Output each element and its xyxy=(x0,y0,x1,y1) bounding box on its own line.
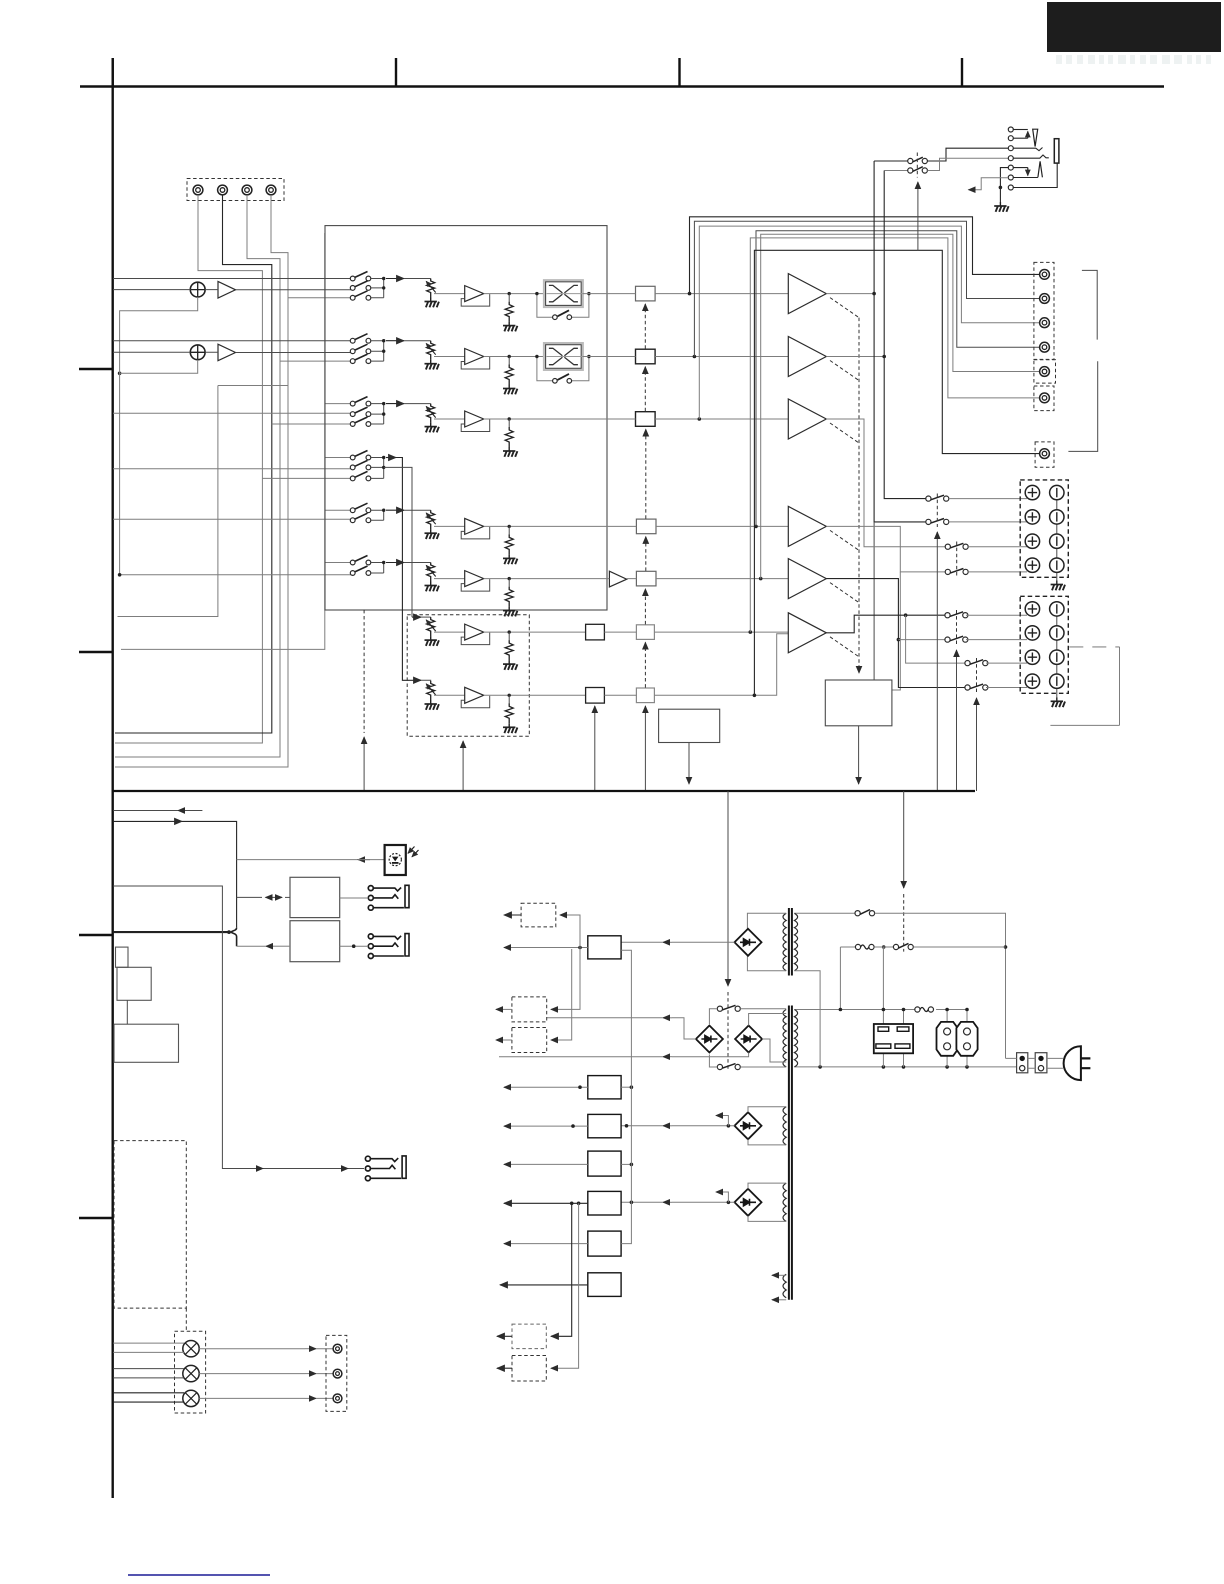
title watermark row xyxy=(1056,55,1211,64)
wire K5a-term xyxy=(986,662,1027,664)
gnd drop U2 xyxy=(120,360,198,575)
terminal A-4 xyxy=(1050,558,1064,572)
join wire row5 xyxy=(371,510,384,520)
aux AC line xyxy=(883,1009,967,1011)
aux op-amp QB xyxy=(461,687,490,708)
wire K4a-term xyxy=(966,614,1027,616)
load R-gnd R2 xyxy=(508,357,510,365)
node R6 xyxy=(508,577,511,580)
op-amp Q1 xyxy=(461,286,490,307)
BR5 loop top xyxy=(748,1183,786,1189)
bypass loop X1 xyxy=(537,294,589,318)
node E line xyxy=(630,1201,634,1205)
ruler tick x396 xyxy=(395,58,397,87)
buffer U19 xyxy=(586,688,605,704)
plug prongs xyxy=(1081,1058,1091,1068)
LED D3 xyxy=(183,1390,199,1406)
indicator jack 2 xyxy=(333,1369,342,1378)
load R-gnd R3 xyxy=(508,419,510,427)
jack trunk arrow 2 xyxy=(337,1168,348,1170)
connector CN1 dashed box xyxy=(187,179,284,201)
rec-out selector X1 xyxy=(544,280,583,307)
feed dbox4 xyxy=(551,1203,572,1336)
drop wire row4b to aux amp A xyxy=(384,467,412,617)
bypass loop X2 xyxy=(537,357,589,381)
wire R6-amp5 xyxy=(607,578,788,580)
switch S3a xyxy=(350,397,371,406)
LED feed wires 3 xyxy=(113,1393,184,1402)
wire R5-amp4 xyxy=(607,525,788,527)
main control bus xyxy=(113,790,975,792)
spk relay K3a xyxy=(945,543,968,549)
terminal B+3 xyxy=(1025,650,1039,664)
join wire row4 xyxy=(371,458,384,479)
node preout5 xyxy=(759,577,763,581)
gnd drop U1 xyxy=(120,297,198,373)
spk relay K2b xyxy=(926,519,949,525)
out to box edge R1 xyxy=(582,293,607,295)
wire R2-amp2 xyxy=(607,356,788,358)
switch S5a xyxy=(350,503,371,512)
feed dbox1 xyxy=(560,915,580,948)
BR5 out arrow xyxy=(663,1201,672,1203)
AC relay K7 xyxy=(893,944,898,949)
reg D right stub xyxy=(621,1163,631,1165)
preout wire 7 xyxy=(754,250,1039,695)
stub row5a xyxy=(325,509,353,511)
node R3 xyxy=(508,417,511,420)
dbox5 out xyxy=(497,1367,512,1369)
sys ctl box lower xyxy=(114,1024,179,1062)
hp/spk feed vertical R xyxy=(884,171,926,499)
protection out arrow xyxy=(858,726,860,784)
aux drop 2 xyxy=(903,1010,905,1025)
transformer T1 core xyxy=(789,908,792,976)
reg B right stub xyxy=(621,1086,631,1088)
node amp6 tap xyxy=(904,613,908,617)
IR sensor wire xyxy=(237,859,370,861)
hp arm c5 xyxy=(1000,168,1027,188)
out wire R1 xyxy=(484,293,545,295)
terminal A minus link xyxy=(1056,493,1058,581)
load R-gnd QA xyxy=(508,632,510,640)
hp c5-c6 link arrow xyxy=(1027,168,1029,176)
wire fuse-relay xyxy=(874,946,893,948)
outlet drops xyxy=(883,1053,903,1067)
terminal A+2 xyxy=(1025,510,1039,524)
X2 through wire xyxy=(547,356,582,358)
X1 through wire xyxy=(547,293,582,295)
wire J3 down xyxy=(115,195,280,757)
op-amp Q3 xyxy=(461,411,490,432)
LED dashed box xyxy=(175,1331,206,1413)
preout wire 6 xyxy=(750,238,1039,632)
switch S4b xyxy=(350,460,371,469)
arrow row5 xyxy=(386,509,404,511)
vol IC U11 xyxy=(636,286,656,301)
muting box xyxy=(659,709,720,742)
wire J1 down xyxy=(115,195,262,743)
LED out wire 1 xyxy=(199,1348,305,1350)
node preout3 xyxy=(698,417,702,421)
line-in row5 xyxy=(113,519,353,520)
BR5 loop bottom xyxy=(748,1216,786,1222)
BR3 out arrow xyxy=(663,1056,672,1058)
node R5 xyxy=(508,525,511,528)
switch S5b xyxy=(350,513,371,522)
hp c1-c2 link arrow xyxy=(1027,132,1029,139)
vol IC U12 xyxy=(636,349,656,364)
title block xyxy=(1047,2,1221,52)
node reg A xyxy=(578,946,582,950)
terminal A-3 xyxy=(1050,534,1064,548)
AC switch S-PWR xyxy=(794,912,855,914)
wire pot-opamp R5 xyxy=(434,525,465,527)
IR wire arrow xyxy=(358,859,370,861)
node preout1 xyxy=(688,292,692,296)
hp ground xyxy=(994,202,1008,212)
node dots bottom AC xyxy=(818,1065,822,1069)
feed dbox5 xyxy=(551,1203,579,1368)
indicator jack 3 xyxy=(333,1394,342,1403)
left ruler line xyxy=(111,58,113,1498)
arrow into aux A xyxy=(412,616,421,618)
volume pot VR2 xyxy=(425,341,439,370)
terminal B+2 xyxy=(1025,626,1039,640)
node primary xyxy=(839,1008,843,1012)
feed vertical L continuation xyxy=(873,522,875,680)
ctrl bus thick wire xyxy=(113,931,228,933)
wire pot-opamp B xyxy=(434,694,465,696)
wire K4b-term xyxy=(966,639,1027,641)
remote unit box 2 xyxy=(290,921,340,962)
left tick y652 xyxy=(79,651,113,653)
expansion dashed box xyxy=(114,1141,186,1309)
reg F out xyxy=(504,1243,588,1245)
switch S2b xyxy=(350,344,371,353)
spk relay K5a xyxy=(965,660,988,666)
T1 left loop top xyxy=(747,913,786,928)
aux pot B xyxy=(425,681,439,710)
node dots row4 xyxy=(382,456,385,459)
box2-jackB wire xyxy=(340,945,369,947)
terminal B-1 xyxy=(1050,602,1064,616)
hex outlet stems xyxy=(947,1010,967,1067)
bridge dash PA2 xyxy=(830,361,859,381)
switch S2a xyxy=(350,334,371,343)
BR4 out wire xyxy=(672,1125,735,1127)
ctl feed up U18 xyxy=(594,706,596,791)
terminal B+1 xyxy=(1025,602,1039,616)
remote jack C xyxy=(365,1156,406,1181)
spk relay K4a xyxy=(945,612,968,618)
AC plug xyxy=(1064,1046,1081,1080)
BR2 out arrow xyxy=(663,1017,672,1019)
input line 2b xyxy=(113,351,353,352)
terminal A+3 xyxy=(1025,534,1039,548)
LED feed wires 2 xyxy=(113,1369,184,1378)
input line 1a xyxy=(113,278,353,280)
hp arm c6 xyxy=(1013,177,1038,179)
feed dbox2 xyxy=(551,948,580,1010)
terminal B-4 xyxy=(1050,674,1064,688)
BR4 node xyxy=(727,1124,731,1128)
out wire R3 xyxy=(484,418,607,420)
box2 wire arrow xyxy=(277,945,290,947)
hp jack contact c2 xyxy=(1008,136,1013,141)
vol ctl dashed link 5 xyxy=(644,589,646,625)
IR beam arrow 2 xyxy=(412,850,419,857)
wire to pot R5 xyxy=(404,509,431,511)
spk relay K5b xyxy=(965,684,988,690)
amp6 out wire xyxy=(826,615,945,633)
power trunk down xyxy=(727,791,729,986)
regulator C xyxy=(588,1114,621,1137)
switch S1c xyxy=(350,291,371,300)
control arrow up into aux box xyxy=(462,741,464,791)
aux fuse F2 xyxy=(915,1007,934,1012)
node QA xyxy=(508,630,511,633)
vol ctl dashed link 4 xyxy=(645,537,647,571)
transformer T2/T3 core xyxy=(789,1006,792,1300)
node hex xyxy=(945,1008,949,1012)
LED feed wires 1 xyxy=(113,1343,184,1352)
ctl feed up U17 xyxy=(644,706,646,791)
wire rowB feed xyxy=(604,634,788,696)
preout wire 1 xyxy=(690,217,1040,294)
switch S3c xyxy=(350,417,371,426)
node dot row5 xyxy=(382,509,385,512)
amp5 tap wire xyxy=(898,639,945,641)
BR4 out tail xyxy=(621,1125,663,1127)
node C line xyxy=(625,1124,629,1128)
psu relay control drop xyxy=(903,791,905,888)
hp relay K1a xyxy=(908,158,913,163)
trunk brace xyxy=(231,928,237,947)
jack trunk arrow 1 xyxy=(252,1168,263,1170)
hp jack contact c5 xyxy=(1008,165,1013,170)
wire pot-opamp A xyxy=(434,631,465,633)
wire pot-opamp R1 xyxy=(434,293,465,295)
line-in row4 xyxy=(113,467,353,468)
stub row3c xyxy=(272,423,353,425)
amp1 out wire xyxy=(826,293,874,295)
outlet slots xyxy=(878,1027,889,1031)
relay K4 dashed xyxy=(956,610,958,645)
reg G out xyxy=(500,1284,588,1286)
hp wire to ring contact xyxy=(927,158,1008,170)
join wire row3 xyxy=(371,404,384,424)
join wire row6 xyxy=(371,563,384,574)
relay K2 control xyxy=(936,532,938,791)
remote jack trunk xyxy=(113,886,364,1169)
left tick y369 xyxy=(79,368,113,370)
LED out wire 2 xyxy=(199,1373,305,1375)
dashed module 3 xyxy=(512,1028,547,1053)
box1-jackA wire xyxy=(340,897,369,899)
line-in row6 xyxy=(120,573,353,575)
out to box edge R2 xyxy=(582,356,607,358)
page footer blue rule xyxy=(128,1574,270,1576)
buffer U18 xyxy=(586,624,605,640)
hp arm c1 xyxy=(1013,129,1028,131)
hex outlet 1 xyxy=(937,1022,958,1056)
terminal block 1 xyxy=(1017,1053,1028,1073)
trunk wire T2 xyxy=(121,233,325,649)
ruler tick x679 xyxy=(678,58,680,87)
vol ctl dashed link 6 xyxy=(644,642,646,687)
aux pot A xyxy=(425,617,439,646)
node jackB xyxy=(352,944,356,948)
dbox3 out xyxy=(496,1039,512,1041)
node reg E2 xyxy=(577,1202,581,1206)
wire K3a-term xyxy=(968,546,1027,548)
BR2 feed bottom xyxy=(709,1055,717,1068)
switch S3b xyxy=(350,407,371,416)
node dot row6 xyxy=(382,561,385,564)
arrow row3 xyxy=(386,403,404,405)
volume pot VR1 xyxy=(425,279,439,308)
summing node U2 xyxy=(190,345,205,360)
psu relay control dashed xyxy=(903,894,905,952)
power amp PA1 xyxy=(788,274,826,314)
out wire R2 xyxy=(484,356,545,358)
BR3 loop top xyxy=(749,1014,787,1026)
vol IC U17 xyxy=(636,688,654,703)
join wire row2 xyxy=(371,341,384,361)
node dots X2 xyxy=(535,355,538,358)
wire J2 down xyxy=(115,195,272,733)
BR3 loop bottom xyxy=(762,1039,786,1062)
regulator E xyxy=(588,1191,621,1215)
reg D out xyxy=(504,1163,588,1165)
wire to pot R3 xyxy=(404,403,431,405)
protect sense dashed vertical xyxy=(858,318,860,673)
spk relay K3b xyxy=(945,569,968,575)
line-in row3 xyxy=(113,412,353,415)
buffer amp A2 xyxy=(218,344,236,361)
wire J4 down xyxy=(115,195,288,767)
IR receiver box xyxy=(385,845,406,875)
hp feed left wire xyxy=(874,160,908,162)
BR5 node xyxy=(727,1201,731,1205)
ground terminal B xyxy=(1051,697,1065,707)
relay K3 dashed xyxy=(956,542,958,578)
input line 2a xyxy=(113,340,353,342)
reg right rail xyxy=(621,950,631,1243)
remote out wire xyxy=(113,820,170,822)
node aux2 xyxy=(902,1008,906,1012)
terminal B-2 xyxy=(1050,626,1064,640)
mains fuse F1 xyxy=(855,944,874,949)
load R-gnd R6 xyxy=(508,579,510,587)
power trunk dashed xyxy=(727,992,729,1070)
amp4 out wire xyxy=(826,526,945,572)
left tick y1218 xyxy=(79,1217,113,1219)
jack J4 xyxy=(266,185,276,195)
terminal B minus link xyxy=(1056,609,1058,697)
speaker terminal block B dashed xyxy=(1020,596,1068,693)
terminal A+4 xyxy=(1025,558,1039,572)
wire pot-opamp R3 xyxy=(434,418,465,420)
primary feed drop xyxy=(839,947,841,1010)
sys ctl box mid xyxy=(117,967,151,1000)
IR tail xyxy=(358,859,384,861)
BR1 output wire xyxy=(672,941,735,943)
sys box link xyxy=(126,1000,128,1024)
out wire R5 xyxy=(484,525,607,527)
hp jack contact c4 xyxy=(1008,156,1013,161)
preout jack P3 xyxy=(1040,318,1050,328)
node aux1 xyxy=(882,1008,886,1012)
T1 secondary winding xyxy=(794,913,797,970)
hp arm c4 xyxy=(1013,155,1049,158)
stub row6a xyxy=(325,562,353,564)
switch S1a xyxy=(350,272,371,281)
hp arm c7 xyxy=(1013,163,1057,187)
relay K5 control xyxy=(976,698,978,791)
BR4 loop bottom xyxy=(748,1139,786,1145)
hp relay K1b xyxy=(908,168,913,173)
heater arrow 1 xyxy=(772,1274,786,1276)
hp ring spring xyxy=(1038,161,1043,177)
BR1 out arrow xyxy=(663,941,672,943)
relay K5 dashed xyxy=(976,658,978,693)
zone B bracket bottom xyxy=(1050,724,1119,726)
node preout4 xyxy=(754,525,758,529)
arrow row6 xyxy=(386,562,404,564)
arrow row1 xyxy=(386,278,404,280)
ruler tick x112 xyxy=(111,58,113,87)
join wire row1 xyxy=(371,279,384,298)
bridge dash PA6 xyxy=(830,637,859,657)
ground terminal A xyxy=(1051,581,1065,591)
hp/spk feed vertical L xyxy=(874,161,926,522)
rectifier BR2 xyxy=(696,1026,723,1053)
BR3 out tail xyxy=(499,1056,663,1058)
hp arm c2 xyxy=(1013,137,1028,139)
node dots row2 xyxy=(382,339,385,342)
bottom AC line xyxy=(794,1066,1016,1068)
spk relay K4b xyxy=(945,636,968,642)
IR receiver symbol xyxy=(389,854,401,866)
T1 right bottom wire xyxy=(794,971,820,1067)
preout jack P7 xyxy=(1040,449,1050,459)
hp jack contact c7 xyxy=(1008,185,1013,190)
wire pot-opamp R2 xyxy=(434,356,465,358)
summing node U1 xyxy=(190,282,205,297)
out wire QB xyxy=(484,694,586,696)
volume pot VR3 xyxy=(425,404,439,433)
preout jack P2 xyxy=(1040,294,1050,304)
selector box control dashed drop xyxy=(363,610,365,733)
stub row1c xyxy=(288,297,353,299)
aux drop 1 xyxy=(882,947,884,1024)
rectifier BR1 xyxy=(735,929,762,956)
sys ctl box small xyxy=(116,947,129,967)
node R2 xyxy=(508,355,511,358)
dbox1 out xyxy=(504,914,521,916)
terminal wires xyxy=(1006,1058,1063,1068)
primary link T2 xyxy=(794,1009,883,1011)
amp3 out wire xyxy=(826,419,945,547)
bridge dash PA4 xyxy=(830,530,859,550)
feed dbox3 xyxy=(551,949,572,1040)
node amp2 xyxy=(882,355,886,359)
switch S2c xyxy=(350,354,371,363)
reg E out xyxy=(504,1202,588,1204)
AC wire to terminal xyxy=(875,913,1006,1058)
